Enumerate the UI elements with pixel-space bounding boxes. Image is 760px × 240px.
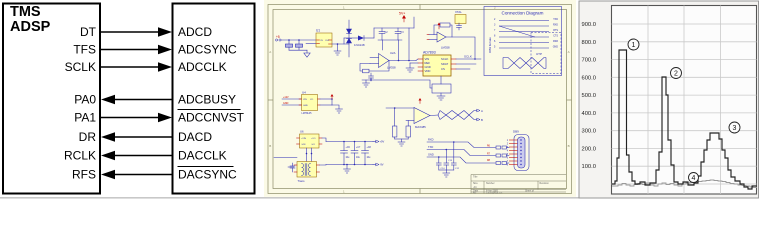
svg-text:+C6: +C6 (346, 147, 351, 149)
wire RFS<-DACSYNC (111, 174, 172, 176)
svg-text:DT: DT (80, 25, 97, 39)
wire GND (427, 157, 496, 163)
regulator U4 (302, 95, 318, 111)
twisted pair (503, 58, 546, 69)
svg-text:PA0: PA0 (74, 93, 96, 107)
ground below lower rail (344, 165, 351, 174)
svg-text:-VIN: -VIN (301, 144, 306, 146)
svg-text:3: 3 (733, 125, 737, 132)
crystal Y1 (455, 15, 466, 24)
wire DT->ADCD (101, 31, 162, 33)
cap value labels (385, 31, 405, 34)
svg-text:+C8: +C8 (367, 147, 372, 149)
svg-text:C:\Design\adc.sch: C:\Design\adc.sch (486, 192, 502, 194)
svg-text:800.0: 800.0 (581, 40, 596, 46)
svg-text:A: A (568, 50, 570, 54)
svg-text:+C7: +C7 (356, 147, 361, 149)
svg-text:4: 4 (692, 175, 696, 182)
transformer T1 (274, 130, 322, 184)
svg-text:ADCD: ADCD (178, 25, 212, 39)
capacitor C3 (395, 28, 401, 40)
svg-text:RXD: RXD (553, 24, 558, 27)
red power flag (331, 96, 333, 100)
staggered cap taps (438, 141, 455, 158)
-V power arrow (373, 164, 376, 166)
svg-text:U1: U1 (316, 29, 320, 33)
svg-text:Sheet of: Sheet of (525, 190, 534, 193)
title block (471, 175, 566, 194)
svg-text:B: B (481, 118, 483, 122)
connection diagram box (484, 7, 562, 76)
svg-text:DB9 female: DB9 female (488, 37, 492, 53)
wire to U1 (282, 39, 317, 41)
ground right of U1 (334, 44, 341, 55)
upper rail (326, 141, 373, 143)
wire U1 out (332, 43, 349, 45)
feedback resistor R1 (360, 61, 389, 73)
wire to hold box (370, 78, 372, 80)
svg-text:PA1: PA1 (74, 111, 96, 125)
svg-text:-VO: -VO (311, 144, 315, 146)
ground triangle (304, 53, 310, 57)
svg-text:LM358: LM358 (387, 66, 396, 70)
peak label 1 (628, 39, 639, 50)
peak label 3 (729, 122, 740, 133)
svg-text:DACD: DACD (178, 130, 212, 144)
transformer box (297, 162, 317, 178)
svg-text:DACCLK: DACCLK (178, 149, 227, 163)
gridlines (612, 6, 757, 195)
ground under box (437, 93, 445, 100)
signal rails to connector (427, 138, 509, 178)
svg-text:CS: CS (441, 67, 445, 71)
left block TMS ADSP (3, 4, 100, 194)
feedback resistor R2 (434, 23, 452, 37)
+V power arrow (373, 141, 376, 143)
transformer taps (322, 138, 326, 142)
wire PA1->ADCCNVST (101, 117, 162, 119)
gray noise trace (612, 180, 757, 188)
wire opampB out down (452, 37, 475, 59)
input wires (282, 98, 302, 100)
output node (320, 98, 332, 100)
svg-text:500.0: 500.0 (581, 93, 596, 99)
vertical links to transformer (306, 148, 308, 162)
svg-text:DB9: DB9 (513, 130, 519, 134)
svg-text:SDAT: SDAT (441, 62, 449, 66)
wire TXD (427, 150, 496, 156)
svg-text:Revision: Revision (540, 182, 550, 185)
decoupling cap 2 (444, 150, 449, 171)
svg-text:200.0: 200.0 (581, 146, 596, 152)
cap C4 under feedback (369, 73, 374, 81)
wire from left border (288, 166, 294, 168)
series elements (496, 146, 507, 165)
svg-text:VIN: VIN (303, 99, 307, 101)
svg-text:OUT: OUT (325, 40, 330, 42)
regulator group (282, 91, 343, 116)
svg-text:GND: GND (283, 102, 289, 105)
svg-text:Connection Diagram: Connection Diagram (502, 11, 544, 16)
power port 5V+ (399, 12, 406, 23)
cap C11 (457, 23, 462, 30)
wire RXD (427, 142, 496, 148)
wire opamp to ADC (389, 60, 416, 62)
twisted pair crossover (430, 114, 438, 117)
ground (443, 170, 450, 177)
svg-text:AD7893: AD7893 (423, 51, 436, 55)
wire PA0<-ADCBUSY (111, 99, 172, 101)
svg-text:TXD: TXD (428, 145, 433, 149)
connector input circles (275, 39, 277, 41)
box under ADC (432, 84, 451, 93)
resistor R4 vertical (394, 108, 396, 126)
svg-text:U6: U6 (300, 130, 304, 134)
common ground (395, 138, 409, 140)
peak label 4 (689, 173, 699, 183)
svg-text:Number: Number (486, 182, 495, 185)
svg-text:2: 2 (674, 71, 678, 78)
svg-text:CTS: CTS (553, 35, 558, 38)
border zone ticks (268, 5, 572, 194)
svg-text:XTAL: XTAL (455, 10, 462, 14)
wire TFS->ADCSYNC (101, 49, 162, 51)
caps C6 C7 C8 (341, 142, 369, 165)
svg-text:Trans: Trans (298, 179, 306, 183)
svg-text:GND: GND (553, 46, 559, 49)
DC-DC converter U5 (300, 134, 320, 148)
zone reference labels (269, 5, 569, 193)
svg-text:100.0: 100.0 (581, 164, 596, 170)
svg-text:400.0: 400.0 (581, 111, 596, 117)
IC U1 (reference box) (316, 33, 332, 47)
plot area (612, 6, 757, 195)
peak label 2 (671, 68, 682, 79)
power rails with caps (320, 138, 385, 173)
svg-text:B: B (269, 144, 271, 148)
svg-text:RTS: RTS (553, 29, 558, 32)
svg-text:SCLK: SCLK (464, 55, 472, 59)
svg-text:VDD: VDD (425, 69, 431, 73)
bottom gray page edge (0, 197, 579, 200)
svg-text:RFS: RFS (72, 168, 96, 182)
svg-text:700.0: 700.0 (581, 58, 596, 64)
decoupling cap 1 (451, 142, 456, 170)
lower rail (326, 164, 373, 166)
connector J1 DB9 (507, 130, 529, 171)
svg-text:300.0: 300.0 (581, 129, 596, 135)
sheet inner border (273, 10, 567, 189)
diode D4 (358, 36, 364, 41)
svg-text:GND: GND (303, 105, 308, 107)
svg-text:ADCCLK: ADCCLK (178, 60, 227, 74)
wires ADC right (456, 58, 481, 60)
svg-text:+12V: +12V (283, 96, 289, 99)
dashed rect (531, 33, 561, 74)
ground left of ADC (406, 63, 418, 72)
svg-text:+VO: +VO (311, 138, 316, 140)
zener stack D3 (347, 20, 352, 57)
wire SCLK->ADCCLK (101, 66, 162, 68)
svg-text:DSR: DSR (553, 40, 558, 43)
svg-text:ADCCNVST: ADCCNVST (178, 111, 245, 125)
resistor R5 vertical (407, 121, 409, 127)
svg-text:RXD: RXD (428, 138, 434, 142)
svg-text:U4: U4 (302, 91, 306, 95)
svg-text:SCLK: SCLK (65, 60, 96, 74)
sheet background (264, 0, 576, 200)
svg-text:900.0: 900.0 (581, 22, 596, 28)
svg-text:Size: Size (473, 182, 478, 185)
svg-text:+VIN: +VIN (301, 138, 306, 140)
svg-text:1: 1 (632, 42, 636, 49)
chart panel (579, 1, 759, 198)
svg-text:MAX485: MAX485 (415, 125, 426, 129)
op-amp U5 driver (386, 98, 430, 146)
pin labels right block (178, 25, 245, 182)
svg-text:TFS: TFS (73, 43, 96, 57)
overline ADCCNVST (178, 109, 240, 111)
input cap (290, 163, 295, 172)
svg-text:UTP: UTP (536, 52, 542, 56)
svg-text:ADSP: ADSP (10, 19, 51, 35)
ADC IC U3 (423, 55, 451, 76)
y axis labels (581, 22, 596, 170)
svg-text:ADCBUSY: ADCBUSY (178, 93, 236, 107)
svg-text:1N4148: 1N4148 (354, 43, 365, 47)
ground (363, 80, 370, 87)
power port red (438, 23, 441, 30)
TVS diodes D1 D2 (285, 40, 307, 53)
svg-text:DACSYNC: DACSYNC (178, 168, 237, 182)
red power (419, 100, 421, 104)
svg-text:-9V: -9V (380, 163, 384, 167)
top rail (364, 37, 374, 39)
svg-text:B: B (568, 144, 570, 148)
sheet outer border (268, 5, 572, 194)
op-amp U2A (370, 51, 396, 70)
svg-text:TMS: TMS (10, 4, 41, 20)
svg-text:SCLK: SCLK (441, 57, 448, 61)
svg-text:GND: GND (428, 153, 434, 157)
svg-text:LM358: LM358 (441, 46, 450, 50)
right block (173, 4, 255, 194)
wire DR<-DACD (111, 136, 172, 138)
cap stub verticals (382, 40, 384, 50)
svg-text:600.0: 600.0 (581, 75, 596, 81)
op-amp U2B (427, 32, 450, 50)
black histogram trace (612, 50, 757, 189)
svg-text:TXD: TXD (553, 18, 558, 21)
svg-text:U2A: U2A (390, 51, 396, 55)
overline DACSYNC (178, 166, 233, 168)
wire RCLK<-DACCLK (111, 155, 172, 157)
svg-text:ADCSYNC: ADCSYNC (178, 43, 237, 57)
svg-text:DR: DR (79, 130, 97, 144)
capacitor C2 (379, 28, 385, 40)
svg-text:5V+: 5V+ (399, 12, 405, 16)
svg-text:Title: Title (473, 176, 478, 179)
svg-text:A: A (481, 109, 483, 113)
svg-text:+5: +5 (276, 35, 280, 39)
ground (332, 105, 339, 109)
decoupling cap 3 (436, 157, 441, 170)
svg-text:LM78L05: LM78L05 (302, 112, 313, 115)
svg-text:+9V: +9V (380, 140, 385, 144)
svg-text:A: A (269, 50, 271, 54)
svg-text:VO: VO (310, 99, 313, 101)
svg-text:RCLK: RCLK (64, 149, 96, 163)
pin labels left block (64, 25, 97, 182)
